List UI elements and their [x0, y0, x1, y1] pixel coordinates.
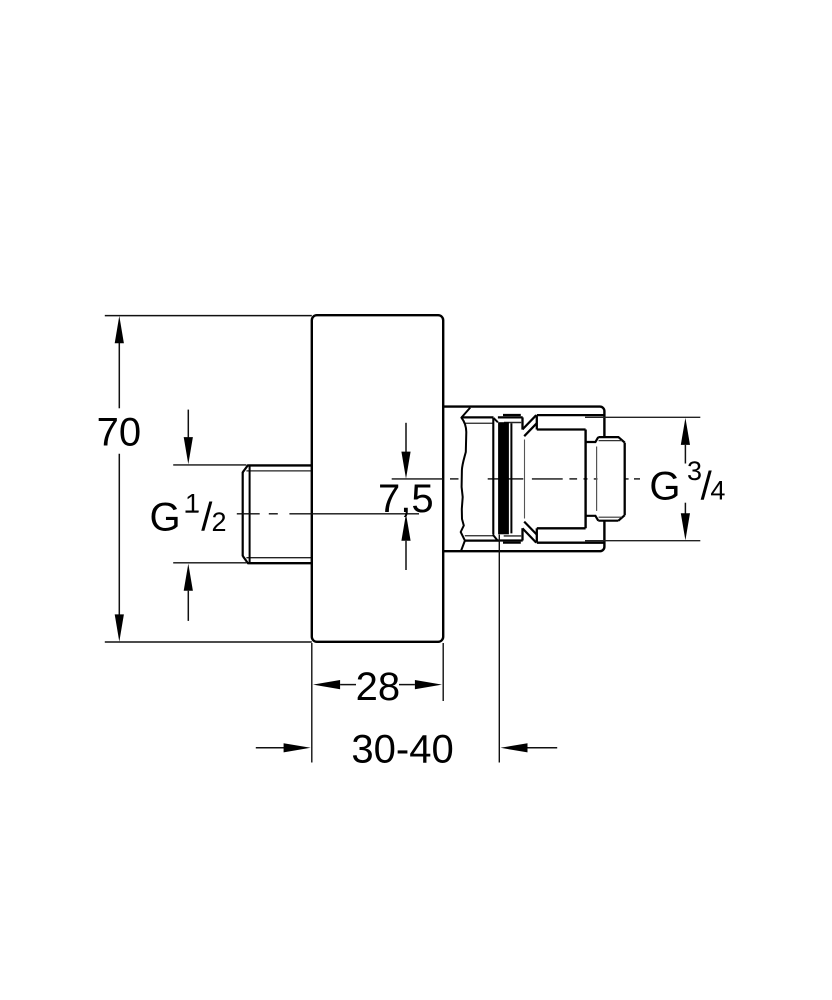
cone chamfer diagonal top inner — [524, 423, 537, 436]
G1/2 lower arrow head — [184, 564, 193, 591]
dimension 28 right stub — [399, 684, 415, 686]
dimension 70 arrow up — [115, 316, 124, 343]
nut cap left edge bottom — [536, 528, 538, 542]
pipe end face — [492, 418, 494, 535]
G1/2 upper arrow head — [184, 437, 193, 464]
break (wavy) line — [461, 408, 471, 551]
right centerline (G3/4 axis) dashes — [450, 478, 640, 480]
dimension 30-40 left tail — [256, 747, 284, 749]
left centerline (G1/2 axis) / 7,5 lower reference line — [237, 513, 419, 515]
nut cap left edge top — [536, 415, 538, 429]
neck step bottom — [586, 516, 599, 521]
thread root segment bottom in washer gap — [504, 535, 522, 537]
G1/2 thread start vertical — [249, 465, 251, 563]
cone chamfer diagonal bottom outer — [523, 528, 537, 542]
G1/2 lower arrow stem — [187, 591, 189, 621]
nut inner bottom line — [537, 527, 586, 529]
nut front face — [584, 430, 586, 529]
nut cap hidden segment bottom (behind washer gap) — [503, 542, 521, 544]
dimension 28 left stub — [340, 684, 356, 686]
svg-text:70: 70 — [97, 411, 142, 455]
G1/2 thread chamfer top — [243, 465, 249, 472]
nut inner top line — [537, 428, 586, 430]
hidden thread line bottom / G3/4 bottom extension — [585, 540, 700, 542]
rubber gasket (black) — [498, 422, 509, 534]
svg-text:30-40: 30-40 — [351, 727, 453, 771]
dimension 7,5 upper arrow head — [401, 452, 410, 479]
svg-text:7,5: 7,5 — [378, 477, 434, 521]
G3/4 dimension lower stem — [684, 503, 686, 514]
dimension 28 extension right — [442, 643, 444, 701]
cone chamfer diagonal top outer — [523, 415, 537, 429]
dimension 7,5 lower arrow head — [401, 514, 410, 541]
spigot root line bottom (thin) — [599, 516, 622, 518]
neck step top — [586, 437, 599, 442]
dimension 30-40 extension right — [498, 535, 500, 763]
G3/4 dimension arrow up — [681, 418, 690, 445]
cone bore line (thin grey) — [524, 440, 526, 519]
dimension 30-40 right tail — [528, 747, 558, 749]
dimension 7,5 upper arrow stem — [405, 423, 407, 452]
pipe root bottom (thin) — [465, 535, 494, 537]
union body outer profile — [443, 407, 604, 552]
dimension 30-40 arrow pointing left — [501, 743, 528, 752]
spigot thread-end vertical (thin) — [596, 447, 598, 511]
hidden thread line top / G3/4 top extension — [585, 416, 700, 418]
cone chamfer diagonal bottom inner — [524, 522, 537, 535]
spigot root line top (thin) — [599, 440, 622, 442]
thread root segment top in washer gap — [504, 422, 521, 424]
G3/4 dimension upper stem — [684, 445, 686, 464]
svg-text:G: G — [649, 464, 680, 508]
svg-text:4: 4 — [710, 475, 725, 505]
pipe crest top — [461, 416, 493, 418]
dimension 70 line lower stem — [118, 454, 120, 615]
label G 1/2 — [150, 489, 227, 540]
G1/2 thread chamfer bottom — [243, 556, 249, 564]
dimension 28 arrow right — [415, 680, 442, 689]
nut cap top edge — [537, 414, 604, 416]
washer right edge bottom — [521, 528, 523, 540]
washer housing bottom edge — [498, 539, 523, 541]
dimension 28 extension left — [311, 643, 313, 763]
svg-text:28: 28 — [356, 665, 401, 709]
svg-text:1: 1 — [185, 489, 200, 519]
spigot white mask — [598, 438, 625, 521]
dimension 30-40 arrow pointing right — [284, 743, 311, 752]
G1/2 upper arrow stem — [187, 410, 189, 438]
washer right edge top — [521, 417, 523, 429]
pipe end chamfer bottom — [493, 535, 497, 540]
pipe crest bottom — [465, 539, 499, 541]
G1/2 diameter extension line upper — [173, 464, 246, 466]
G1/2 thread crest bottom — [248, 562, 312, 564]
pipe root top (thin) — [465, 422, 493, 424]
dimension 70 arrow down — [115, 614, 124, 641]
dimension 7,5 lower arrow stem — [405, 541, 407, 570]
G1/2 thread root bottom (thin) — [246, 557, 311, 559]
washer housing top edge — [498, 416, 523, 418]
G1/2 thread crest top — [248, 464, 312, 466]
dimension 70 line upper stem — [118, 343, 120, 409]
G1/2 thread tip face — [242, 472, 244, 556]
G3/4 dimension arrow down — [681, 513, 690, 540]
pipe end chamfer top — [494, 418, 498, 422]
dimension 70 extension line bottom — [105, 641, 312, 643]
dimension 28 arrow left — [313, 680, 340, 689]
nut cap hidden segment top (behind washer gap) — [503, 414, 521, 416]
dimension 7,5 upper reference line (right axis ext) — [392, 478, 444, 480]
spigot crest top — [598, 437, 624, 443]
wall plate (escutcheon) — [312, 315, 443, 642]
gasket right face line — [510, 423, 512, 533]
label G 3/4 — [649, 456, 725, 508]
nut cap bottom edge — [537, 542, 604, 544]
spigot right edge — [624, 443, 626, 516]
spigot crest bottom — [598, 515, 624, 521]
G1/2 diameter extension line lower — [173, 562, 246, 564]
svg-text:2: 2 — [212, 507, 227, 537]
svg-text:G: G — [150, 496, 181, 540]
G1/2 thread root top (thin) — [246, 470, 311, 472]
dimension 70 extension line top — [105, 315, 312, 317]
